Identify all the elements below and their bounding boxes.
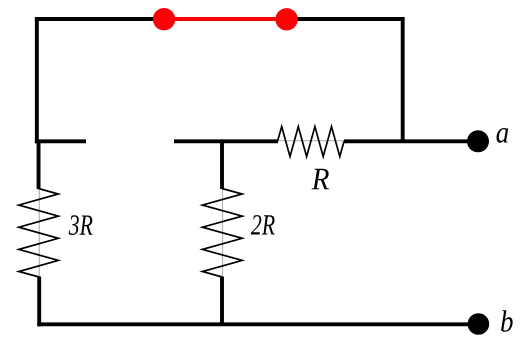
- resistor R: [278, 127, 345, 157]
- label b: [501, 310, 513, 332]
- wire top horizontal: [35, 17, 405, 21]
- wire left vertical: [35, 17, 39, 143]
- wire left vertical lower (to resistor 3R): [37, 141, 41, 190]
- label 2R: [251, 215, 275, 234]
- wire 2R top stub: [220, 139, 224, 189]
- resistor 2R axis (thin): [222, 189, 224, 277]
- resistor R axis (thin): [278, 140, 345, 142]
- resistor 2R: [202, 189, 242, 278]
- wire resistor R to terminal a: [344, 139, 478, 143]
- label a: [496, 128, 508, 143]
- label 3R: [69, 215, 93, 235]
- terminal b dot: [468, 313, 490, 335]
- terminal a dot: [467, 130, 489, 152]
- wire right vertical: [401, 17, 405, 141]
- wire 2R bottom stub: [220, 277, 224, 325]
- wire left bottom vertical: [37, 277, 41, 327]
- resistor 3R: [19, 189, 59, 278]
- wire bottom horizontal: [37, 322, 478, 326]
- node junction dot right (red): [275, 8, 297, 30]
- wire middle horizontal (open end to resistor R): [174, 139, 278, 143]
- resistor 3R axis (thin): [38, 189, 40, 277]
- label R: [312, 169, 329, 190]
- red wire (closed link): [164, 17, 287, 21]
- wire left stub at node: [35, 139, 86, 143]
- node junction dot left (red): [153, 8, 175, 30]
